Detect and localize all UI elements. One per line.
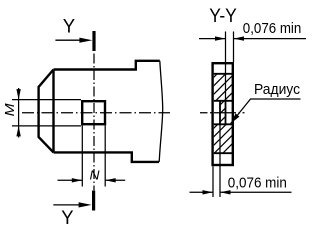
- svg-text:0,076 min: 0,076 min: [228, 175, 287, 191]
- svg-text:Y: Y: [63, 15, 75, 37]
- svg-text:M: M: [2, 103, 17, 116]
- svg-text:Радиус: Радиус: [254, 82, 300, 98]
- svg-text:0,076 min: 0,076 min: [243, 21, 301, 37]
- svg-text:Y-Y: Y-Y: [209, 5, 237, 27]
- svg-text:N: N: [90, 168, 101, 183]
- svg-text:Y: Y: [61, 207, 73, 226]
